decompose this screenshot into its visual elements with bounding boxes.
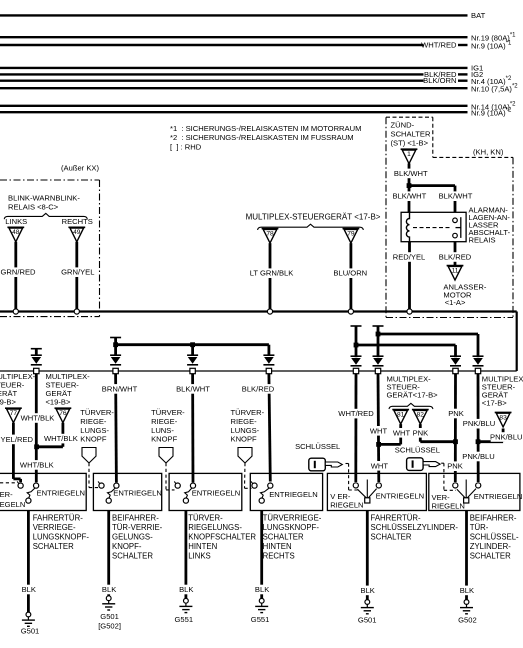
wire WHT/BLK to driver knob switch [35,374,38,483]
wire BAT feed line [0,14,468,16]
svg-text:82: 82 [417,412,425,419]
label BLK (driver key switch) [360,586,375,596]
svg-text:76: 76 [59,410,67,417]
svg-text:WHT/BLK: WHT/BLK [44,434,78,443]
wire stub end (left bus feed) [110,337,121,339]
wire GRN/RED [14,242,17,309]
switch contacts box 3 [174,481,195,503]
brace (multiplex pins 81/82) [389,403,433,409]
label BLK (passenger knob switch) [102,585,117,595]
svg-text:SCHALTER: SCHALTER [263,533,304,542]
dash-dot border left (KH,KN box) [385,117,387,317]
label BLK/WHT [395,169,426,179]
svg-text:81: 81 [397,412,405,419]
node connector on bus (GRN/YEL) [74,309,79,314]
switch contacts box 6 [453,480,481,504]
connector in-line (PNK/BLU) [473,356,484,373]
node connector on bus (RED/YEL) [407,309,412,314]
dashed border right (Zündschalter box) [432,117,434,157]
svg-text:[ ] : RHD: [ ] : RHD [170,142,202,151]
wire PNK elbow 82 [420,440,456,443]
connector 78 [262,229,279,244]
wire WHT/BLK drop upper [35,349,38,356]
svg-text:TÜR-: TÜR- [470,523,489,532]
svg-text:LINKS: LINKS [188,552,211,561]
wire distribution bus left [116,343,269,346]
svg-text:BLK/WHT: BLK/WHT [393,192,427,201]
svg-text:YEL/RED: YEL/RED [1,435,34,444]
svg-text:WHT: WHT [371,461,389,470]
wire Nr.4 (10A) feed line (right) [458,79,468,81]
svg-text:ENTRIEGELN: ENTRIEGELN [113,489,162,498]
wire BLK/WHT from connector 1 [408,163,411,212]
node junction left bus / BLK-WHT [190,342,195,347]
wire BRN/WHT drop upper [114,338,117,356]
svg-text:KNOPF: KNOPF [151,435,178,444]
wire BLK from passenger knob switch [107,511,110,596]
label BLK (driver knob switch) [22,585,37,595]
label PNK/BLU lower [463,452,494,462]
svg-text:BLK: BLK [102,585,116,594]
node junction PNK [453,439,458,444]
label PNK/BLU (conn 83) [491,432,522,442]
wire WHT/RED drop upper [355,326,358,357]
label YEL/RED [1,435,32,445]
dash-dot border top (Außer KX box) [0,179,100,181]
svg-text:PNK/BLU: PNK/BLU [490,433,523,442]
svg-text:BEIFAHRER-: BEIFAHRER- [112,514,159,523]
linkage dashed knob 1 [88,463,90,488]
linkage dashed knob 1 horizontal [89,487,99,489]
switch box 5: Fahrertür-Schlüsselzylinderschalter [327,473,426,510]
label PNK upper [449,409,464,419]
wire Nr.9 (10A) feed line [0,111,468,113]
wire PNK/BLU to passenger key switch [477,374,480,482]
wire IG1 feed line [0,67,468,69]
svg-text:BRN/WHT: BRN/WHT [102,384,138,393]
linkage dashed key 2 down [443,463,445,490]
dash-dot border bottom (Außer KX box) [0,316,100,318]
svg-text:SCHALTER: SCHALTER [470,552,511,561]
label WHT upper [371,426,386,436]
dashed border top (Zündschalter box) [386,116,433,118]
wire PNK drop upper [454,345,457,357]
switch box 1: Fahrertürverriegelungsknopfschalter [0,473,86,510]
svg-text:KNOPFSCHALTER: KNOPFSCHALTER [188,533,256,542]
linkage dashed knob 2 [165,463,167,490]
door lock knob symbol 1 [82,448,96,464]
wire GRN/YEL [75,242,78,309]
dash-dot border bottom (KH,KN box) [386,317,513,319]
wire WHT to driver key switch [377,374,381,482]
switch box 2: Beifahrertürverriegelungsknopfschalter [93,473,161,510]
linkage dashed key 2 horizontal [444,489,456,491]
svg-text:LUNGSKNOPF-: LUNGSKNOPF- [263,523,320,532]
svg-text:LUNS-: LUNS- [151,426,174,435]
svg-text:PNK/BLU: PNK/BLU [463,419,496,428]
svg-text:(KH, KN): (KH, KN) [473,148,504,157]
svg-text:BEIFAHRER-: BEIFAHRER- [470,514,517,523]
wire BLK from passenger key switch [465,511,468,600]
svg-text:BLK/WHT: BLK/WHT [394,169,428,178]
wire BLK from driver key switch [366,511,369,600]
svg-text:BLK/WHT: BLK/WHT [439,192,473,201]
connector 48 (LINKS) [7,227,24,242]
ground symbol (passenger knob switch) [102,596,115,610]
svg-text:VER-: VER- [0,490,13,499]
wire WHT drop upper [377,326,380,357]
wire Nr.9 (10A) feed line (left) [0,44,424,46]
label BLK (rear-right knob switch) [255,585,269,595]
node junction BLK/WHT [407,183,412,188]
svg-text:SCHALTER: SCHALTER [112,552,153,561]
wire BRN/WHT to pass knob switch [114,374,118,483]
linkage dashed knob 3 [244,463,247,488]
wire Nr.10 (7,5A) feed line [0,87,468,89]
svg-text:SCHLÜSSEL: SCHLÜSSEL [295,442,340,451]
connector in-line (PNK) [450,356,461,373]
connector 1 (Zündschalter ST) [401,149,418,164]
switch contacts box 2 [98,481,119,503]
connector in-line (WHT/RED) [351,356,362,373]
svg-text:GERÄT<17-B>: GERÄT<17-B> [387,391,439,400]
svg-text:ENTRIEGELN: ENTRIEGELN [376,492,425,501]
wire stub end (WHT/BLK drop) [31,348,42,350]
label WHT lower [372,461,387,471]
svg-text:<1-A>: <1-A> [445,298,466,307]
node junction WHT [376,442,381,447]
svg-text:KNOPF-: KNOPF- [112,542,142,551]
wire Nr.14 (10A) feed line [0,105,468,107]
svg-text:ZYLINDER-: ZYLINDER- [470,542,512,551]
svg-text:G501: G501 [21,627,40,636]
svg-text:PNK: PNK [413,428,429,437]
switch contacts box 5 [353,480,381,504]
svg-text:<19-B>: <19-B> [46,398,71,407]
svg-text:RIEGELN: RIEGELN [0,500,25,509]
svg-text:Nr.10 (7,5A)*2: Nr.10 (7,5A)*2 [471,84,518,94]
connector 77 [5,408,22,423]
svg-text:KNOPF: KNOPF [231,435,258,444]
svg-text:LUNGS-: LUNGS- [80,426,109,435]
wire BLK/RED drop upper [267,345,270,356]
node junction right bus1 / WHT [376,332,381,337]
linkage dashed key 1 down [348,464,350,491]
svg-text:ZÜND-: ZÜND- [391,120,415,129]
svg-text:RELAIS <8-C>: RELAIS <8-C> [8,203,59,212]
svg-text:GELUNGS-: GELUNGS- [112,533,153,542]
label BLK/RED [242,384,273,394]
svg-text:ENTRIEGELN: ENTRIEGELN [269,490,318,499]
label BLK (passenger key switch) [460,586,475,596]
label BLK/WHT (right branch) [440,191,471,201]
svg-text:BLK: BLK [255,585,269,594]
wire stub end (WHT feed) [373,325,384,327]
connector in-line (BRN/WHT) [110,355,121,373]
svg-text:TÜRVER-: TÜRVER- [80,408,114,417]
wire PNK/BLU elbow 83 [477,440,503,443]
svg-text:WHT/RED: WHT/RED [421,41,457,50]
relay coil [406,212,409,241]
ground symbol (rear-right knob switch) [255,598,268,612]
wire main bus right edge down [516,312,518,372]
svg-text:49: 49 [73,229,81,236]
wire BLK from driver knob switch [27,511,30,613]
label WHT/BLK lower [21,460,52,470]
wire WHT/RED to driver key switch [354,374,357,482]
svg-text:RECHTS: RECHTS [263,552,295,561]
svg-text:LUNGS-: LUNGS- [231,426,260,435]
svg-text:BLK: BLK [361,586,375,595]
node connector on bus (BLU/ORN) [348,309,353,314]
svg-text:MULTIPLEX-STEUERGERÄT <17-B>: MULTIPLEX-STEUERGERÄT <17-B> [246,213,381,222]
svg-text:HINTEN: HINTEN [188,542,217,551]
label GRN/RED [1,267,32,277]
label PNK/BLU upper [463,419,494,429]
label LT GRN/BLK [250,268,294,278]
svg-text:RED/YEL: RED/YEL [393,253,426,262]
relay box: Alarmanlagen-Anlasser-Abschaltrelais [401,212,466,241]
svg-text:G502: G502 [458,616,477,625]
dashed border top-right (KH,KN box) [433,156,513,158]
svg-text:TÜR-VERRIE-: TÜR-VERRIE- [112,523,163,532]
svg-text:1: 1 [407,151,411,158]
wire BLK/WHT to rear-left knob switch [191,374,194,483]
wire PNK/BLU from connector 83 [502,429,505,442]
svg-text:RIEGELN: RIEGELN [432,501,465,510]
svg-text:GRN/YEL: GRN/YEL [61,268,94,277]
svg-text:VERRIEGE-: VERRIEGE- [33,523,76,532]
node junction right bus2 / WHT-RED [354,343,359,348]
wire IG2 feed line (right) [458,73,468,75]
linkage dashed key 1 [346,463,349,465]
svg-text:11: 11 [452,268,459,275]
svg-text:BLK: BLK [460,586,474,595]
svg-text:GRN/RED: GRN/RED [1,268,37,277]
wire BLK/RED from relay to starter [454,242,457,266]
ground symbol (driver knob switch) [22,612,35,626]
svg-text:HINTEN: HINTEN [263,542,292,551]
wire stub end (WHT/RED feed) [351,325,362,327]
wire thin harness boundary line [0,370,517,372]
relay contact [453,217,461,238]
wire IG2 feed line (left) [0,73,424,75]
connector 82 [412,410,429,425]
svg-text:(Außer KX): (Außer KX) [61,164,99,173]
label WHT/BLK (conn 76) [45,434,76,444]
wire YEL/RED down [19,479,22,482]
svg-text:PNK: PNK [447,462,463,471]
svg-text:BLK/ORN: BLK/ORN [423,76,456,85]
svg-text:RIEGE-: RIEGE- [80,417,107,426]
linkage dashed knob 2 horizontal [166,489,175,491]
node connector on bus (GRN/RED) [13,309,18,314]
svg-text:*2 : SICHERUNGS-/RELAISKASTEN: *2 : SICHERUNGS-/RELAISKASTEN IM FUSSRAU… [170,133,354,142]
wire YEL/RED elbow [13,477,20,480]
wire YEL/RED from connector 77 [12,423,15,479]
wire PNK from connector 82 [419,424,422,442]
switch box 3: Türverriegelungsknopfschalter hinten links [169,473,242,510]
svg-text:G551: G551 [175,615,194,624]
relay actuation dashed link [413,227,451,229]
svg-text:KNOPF: KNOPF [80,435,107,444]
svg-text:83: 83 [499,414,507,421]
svg-text:G501: G501 [100,612,119,621]
svg-text:WHT/BLK: WHT/BLK [20,460,54,469]
switch box 4: Türverriegelungsknopfschalter hinten rechts [250,473,322,510]
ground symbol (driver key switch) [361,600,374,614]
svg-text:RIEGE-: RIEGE- [151,417,178,426]
label BLU/ORN [335,268,366,278]
connector in-line (WHT) [373,356,384,373]
svg-text:<17-B>: <17-B> [482,399,507,408]
svg-text:WHT: WHT [393,428,411,437]
svg-text:BLINK-WARNBLINK-: BLINK-WARNBLINK- [8,194,80,203]
svg-text:RECHTS: RECHTS [62,217,93,226]
wire Nr.9 (10A) feed line (right) [458,44,468,46]
connector 83 [495,412,512,427]
svg-text:ENTRIEGELN: ENTRIEGELN [37,489,86,498]
svg-text:FAHRERTÜR-: FAHRERTÜR- [371,514,422,523]
wire LT GRN/BLK [269,243,272,309]
svg-text:WHT: WHT [370,426,388,435]
svg-text:79: 79 [347,231,355,238]
svg-text:RELAIS: RELAIS [469,236,496,245]
svg-text:LT GRN/BLK: LT GRN/BLK [250,269,294,278]
svg-text:G501: G501 [358,616,377,625]
svg-text:77: 77 [10,410,18,417]
ground symbol (rear-left knob switch) [179,598,192,612]
label BLK/RED [439,252,470,262]
wire WHT/BLK from connector 76 [62,423,65,447]
svg-text:ENTRIEGELN: ENTRIEGELN [192,489,241,498]
svg-text:WHT/BLK: WHT/BLK [21,414,55,423]
label WHT/BLK upper [22,413,53,423]
node junction PNK/BLU [476,439,481,444]
dash-dot border right (KH,KN box) [512,157,514,317]
wire BLK/WHT branch right [409,184,455,187]
label RED/YEL [393,252,424,262]
dash-dot border right (Außer KX box) [99,180,101,317]
linkage dashed knob 3 horizontal [245,487,252,489]
wire BLK/WHT down to relay contact [454,186,457,213]
node junction WHT/BLK [34,444,39,449]
switch contacts box 4 [251,481,273,503]
svg-text:*1 : SICHERUNGS-/RELAISKASTEN: *1 : SICHERUNGS-/RELAISKASTEN IM MOTORRA… [170,124,361,133]
ground symbol (passenger key switch) [460,600,473,614]
svg-text:SCHALTER: SCHALTER [371,533,412,542]
svg-text:SCHALTER: SCHALTER [391,129,431,138]
wire main bus horizontal [0,310,517,312]
svg-text:48: 48 [12,229,20,236]
svg-text:BLU/ORN: BLU/ORN [333,269,367,278]
connector 79 [343,229,360,244]
svg-text:<19-B>: <19-B> [0,398,16,407]
wire Nr.4 (10A) feed line (left) [0,79,424,81]
svg-text:RIEGELUNGS-: RIEGELUNGS- [188,523,242,532]
svg-text:BLK: BLK [22,585,36,594]
wire WHT elbow 81 [380,443,401,446]
connector in-line (BLK/WHT) [187,355,198,373]
svg-text:PNK/BLU: PNK/BLU [462,452,495,461]
switch contacts box 1 [17,481,39,503]
wire BLK/RED to rear-right knob switch [269,374,270,482]
svg-text:TÜRVERRIEGE-: TÜRVERRIEGE- [263,514,322,523]
label BLK/WHT (left branch) [394,191,425,201]
svg-text:RIEGELN: RIEGELN [330,500,363,509]
svg-text:TÜRVER-: TÜRVER- [188,514,223,523]
svg-text:BLK/RED: BLK/RED [439,253,472,262]
door lock knob symbol 3 [238,448,252,464]
svg-text:TÜRVER-: TÜRVER- [231,408,265,417]
connector in-line (BLK/RED) [263,355,274,373]
node junction left bus / BRN-WHT [113,342,118,347]
svg-text:FAHRERTÜR-: FAHRERTÜR- [33,514,84,523]
svg-text:PNK: PNK [448,409,464,418]
label PNK lower [448,461,463,471]
label BLK/WHT [177,384,208,394]
svg-text:TÜRVER-: TÜRVER- [151,408,185,417]
label WHT/RED [340,409,371,419]
connector 49 (RECHTS) [68,227,85,242]
svg-text:LUNGSKNOPF-: LUNGSKNOPF- [33,533,90,542]
wire BLU/ORN [349,243,352,309]
svg-text:LINKS: LINKS [5,217,27,226]
wire WHT from connector 81 [399,424,402,444]
label BRN/WHT [104,384,135,394]
connector 81 [392,410,409,425]
svg-text:G551: G551 [251,615,270,624]
svg-text:WHT/RED: WHT/RED [338,409,374,418]
wire BLK from rear-left knob switch [184,511,187,599]
svg-text:(ST) <1-B>: (ST) <1-B> [391,139,429,148]
svg-text:SCHALTER: SCHALTER [33,542,74,551]
brace (multiplex pins 78/79) [258,224,364,230]
wire BLK from rear-right knob switch [260,511,263,599]
wire PNK/BLU drop upper [477,334,480,357]
svg-text:SCHLÜSSEL-: SCHLÜSSEL- [470,533,519,542]
svg-text:78: 78 [266,231,274,238]
key symbol 2 [407,458,441,471]
svg-text:BLK: BLK [179,585,193,594]
linkage dashed key 2 [441,462,444,464]
wire distribution bus right lower [356,344,456,347]
wire WHT/BLK elbow 76 [38,445,63,448]
key symbol 1 [309,458,343,471]
label PNK (conn 82) [413,428,428,438]
label WHT (conn 81) [394,428,409,438]
switch box 6: Beifahrertür-Schlüsselzylinderschalter [429,473,520,510]
linkage dashed into box 1 [0,482,17,484]
wire PNK to passenger key switch [454,374,457,482]
svg-text:BLK/RED: BLK/RED [242,384,275,393]
wire RED/YEL from relay to bus [408,242,411,309]
svg-text:BAT: BAT [471,11,486,20]
wire distribution bus right upper [378,333,478,336]
node connector on bus (LT GRN/BLK) [267,309,272,314]
wire BLK/WHT drop upper [191,345,194,356]
svg-text:ENTRIEGELN: ENTRIEGELN [474,492,523,501]
svg-text:SCHLÜSSEL: SCHLÜSSEL [395,445,440,454]
wire Nr.19 (80A) feed line [0,36,468,38]
svg-text:RIEGE-: RIEGE- [231,417,258,426]
connector 76 [55,408,72,423]
label GRN/YEL [62,267,93,277]
svg-text:[G502]: [G502] [98,622,121,631]
svg-text:SCHLÜSSELZYLINDER-: SCHLÜSSELZYLINDER- [371,523,459,532]
connector 11 (Anlasser) [447,266,464,281]
linkage dashed key 1 horizontal [349,489,360,491]
